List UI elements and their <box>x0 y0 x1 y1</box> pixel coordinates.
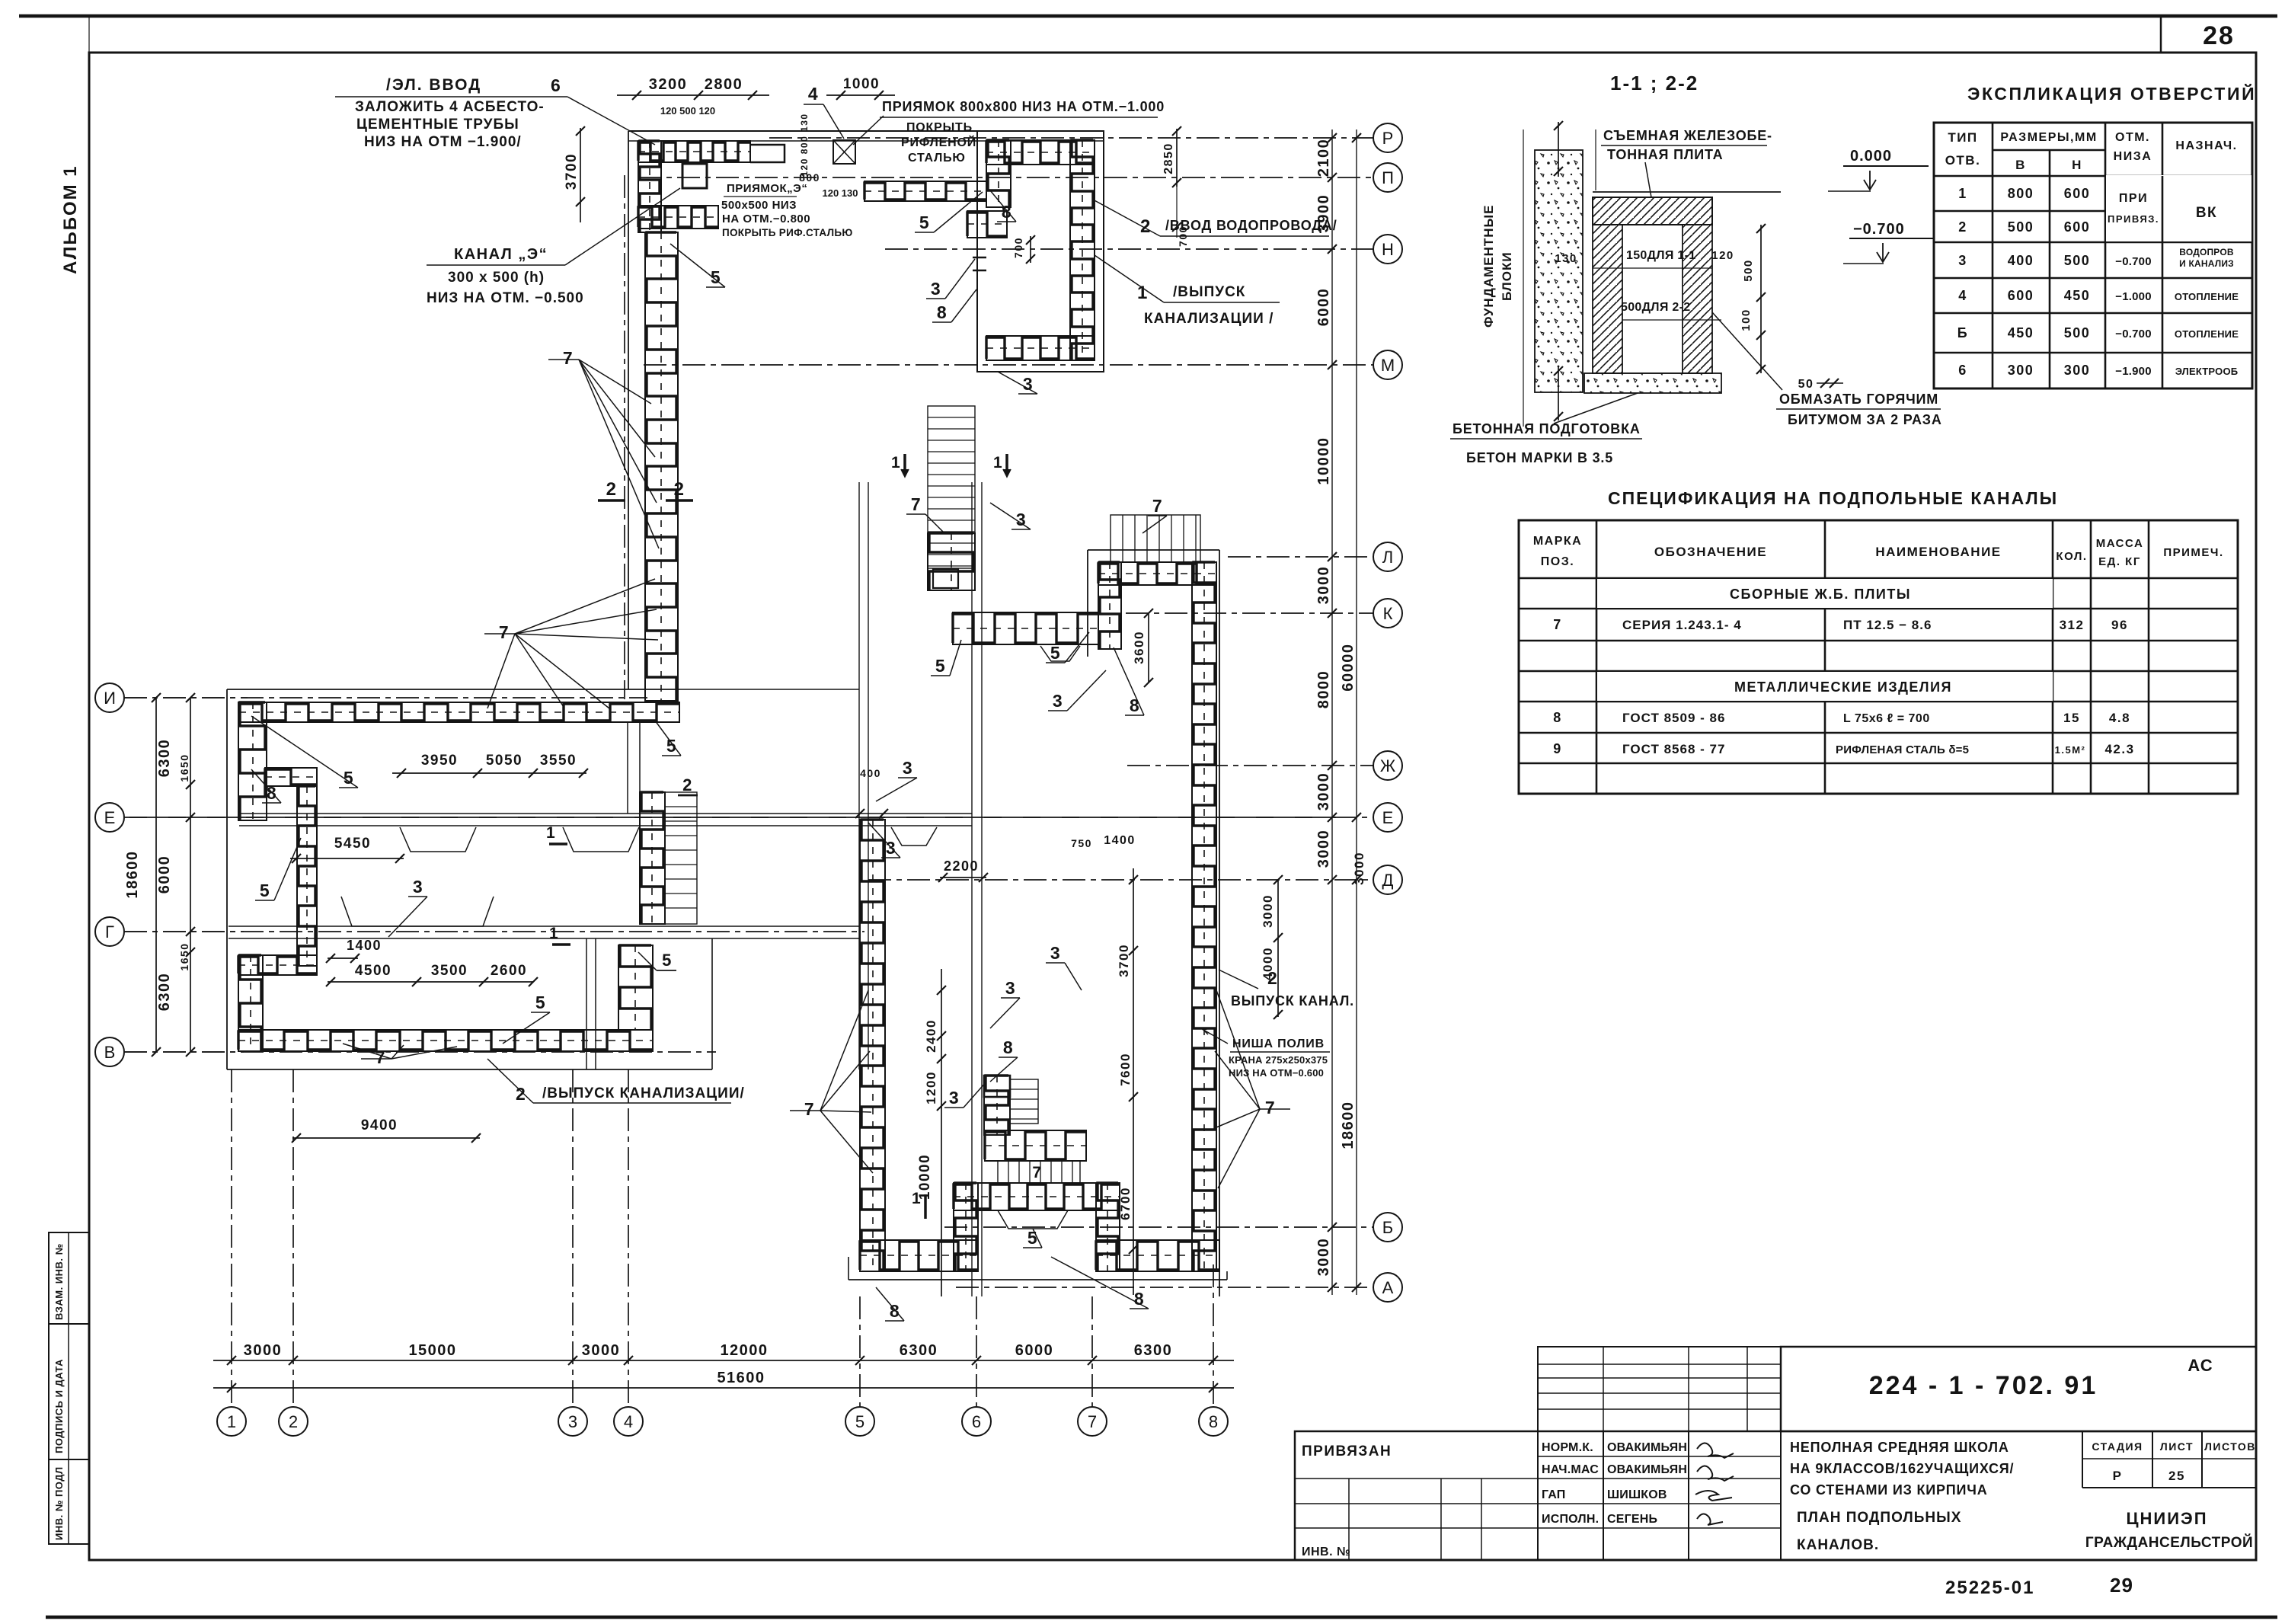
svg-text:51600: 51600 <box>717 1370 765 1386</box>
svg-text:МЕТАЛЛИЧЕСКИЕ ИЗДЕЛИЯ: МЕТАЛЛИЧЕСКИЕ ИЗДЕЛИЯ <box>1734 679 1952 695</box>
svg-text:Ж: Ж <box>1380 756 1396 775</box>
svg-text:Е: Е <box>1382 808 1394 827</box>
svg-text:7: 7 <box>499 622 510 642</box>
svg-text:2200: 2200 <box>944 858 979 874</box>
svg-text:ОВАКИМЬЯН: ОВАКИМЬЯН <box>1607 1463 1687 1476</box>
svg-text:К: К <box>1383 604 1393 623</box>
svg-text:15000: 15000 <box>408 1342 456 1359</box>
svg-text:400: 400 <box>860 767 881 779</box>
svg-text:ПОЗ.: ПОЗ. <box>1541 555 1574 568</box>
svg-text:8: 8 <box>937 302 948 322</box>
svg-text:МАРКА: МАРКА <box>1533 535 1582 548</box>
svg-text:ТИП: ТИП <box>1948 130 1977 145</box>
svg-text:7: 7 <box>804 1099 815 1119</box>
svg-text:3000: 3000 <box>1261 894 1275 928</box>
svg-text:ПРИМЕЧ.: ПРИМЕЧ. <box>2163 546 2223 559</box>
svg-text:25225-01: 25225-01 <box>1945 1578 2034 1598</box>
svg-text:НИША ПОЛИВ: НИША ПОЛИВ <box>1232 1037 1325 1050</box>
svg-text:0.000: 0.000 <box>1850 148 1892 165</box>
svg-text:500: 500 <box>1742 259 1755 282</box>
svg-text:НА ОТМ.−0.800: НА ОТМ.−0.800 <box>722 213 810 225</box>
svg-text:5: 5 <box>662 951 673 970</box>
svg-text:АЛЬБОМ 1: АЛЬБОМ 1 <box>60 165 81 274</box>
svg-text:5: 5 <box>1050 643 1061 663</box>
svg-text:1-1 ; 2-2: 1-1 ; 2-2 <box>1610 72 1699 94</box>
svg-text:2: 2 <box>606 479 618 500</box>
svg-text:/ВЫПУСК: /ВЫПУСК <box>1173 284 1245 300</box>
svg-text:МАССА: МАССА <box>2096 537 2144 550</box>
svg-text:7: 7 <box>1553 617 1562 632</box>
svg-text:Р: Р <box>2113 1469 2123 1483</box>
svg-text:1200: 1200 <box>924 1071 938 1105</box>
svg-text:НАЗНАЧ.: НАЗНАЧ. <box>2175 139 2237 152</box>
svg-text:4.8: 4.8 <box>2109 711 2130 725</box>
svg-text:12000: 12000 <box>720 1342 768 1359</box>
svg-text:НИЗ НА ОТМ. −0.500: НИЗ НА ОТМ. −0.500 <box>427 290 584 306</box>
svg-text:НЕПОЛНАЯ СРЕДНЯЯ ШКОЛА: НЕПОЛНАЯ СРЕДНЯЯ ШКОЛА <box>1790 1440 2009 1455</box>
svg-text:НИЗ НА ОТМ−0.600: НИЗ НА ОТМ−0.600 <box>1229 1067 1324 1079</box>
svg-text:БЕТОННАЯ ПОДГОТОВКА: БЕТОННАЯ ПОДГОТОВКА <box>1452 421 1641 436</box>
svg-text:−0.700: −0.700 <box>2115 255 2152 268</box>
svg-text:224 - 1 - 702. 91: 224 - 1 - 702. 91 <box>1869 1371 2098 1400</box>
svg-text:50: 50 <box>1798 378 1814 391</box>
svg-text:В: В <box>2015 158 2026 172</box>
svg-text:5: 5 <box>935 656 946 676</box>
svg-text:П: П <box>1382 168 1394 187</box>
svg-text:500: 500 <box>2064 253 2091 268</box>
svg-text:КАНАЛОВ.: КАНАЛОВ. <box>1797 1537 1879 1553</box>
svg-text:РИФЛЕНАЯ СТАЛЬ δ=5: РИФЛЕНАЯ СТАЛЬ δ=5 <box>1836 743 1969 756</box>
svg-text:3: 3 <box>931 279 941 299</box>
svg-text:500: 500 <box>2064 325 2091 340</box>
svg-text:150ДЛЯ 1-1: 150ДЛЯ 1-1 <box>1626 249 1695 262</box>
svg-text:НАЧ.МАС: НАЧ.МАС <box>1542 1463 1599 1476</box>
svg-text:1: 1 <box>912 1190 922 1207</box>
svg-text:2100: 2100 <box>1315 139 1332 177</box>
svg-text:1: 1 <box>227 1412 236 1431</box>
svg-text:29: 29 <box>2110 1574 2133 1597</box>
svg-text:ПОКРЫТЬ: ПОКРЫТЬ <box>906 121 973 134</box>
svg-text:1: 1 <box>1958 186 1967 201</box>
svg-text:ПРИЯМОК 800x800 НИЗ НА ОТМ.−1.: ПРИЯМОК 800x800 НИЗ НА ОТМ.−1.000 <box>882 99 1165 114</box>
svg-text:500: 500 <box>2008 219 2034 235</box>
svg-text:600: 600 <box>2064 219 2091 235</box>
svg-text:5050: 5050 <box>486 753 523 769</box>
svg-text:3000: 3000 <box>582 1342 621 1359</box>
svg-text:КОЛ.: КОЛ. <box>2056 550 2087 563</box>
svg-text:5: 5 <box>855 1412 864 1431</box>
svg-text:96: 96 <box>2111 618 2128 632</box>
svg-text:3950: 3950 <box>421 753 458 769</box>
svg-text:2: 2 <box>674 479 685 500</box>
svg-text:3000: 3000 <box>244 1342 283 1359</box>
svg-text:ИНВ. №: ИНВ. № <box>1302 1546 1350 1558</box>
svg-text:7: 7 <box>563 348 574 368</box>
svg-text:5: 5 <box>919 213 930 232</box>
svg-text:6: 6 <box>551 75 561 95</box>
svg-text:4: 4 <box>624 1412 633 1431</box>
svg-text:7: 7 <box>1265 1098 1276 1117</box>
svg-text:ПРИВЯЗАН: ПРИВЯЗАН <box>1302 1443 1392 1459</box>
svg-text:НА 9КЛАССОВ/162УЧАЩИХСЯ/: НА 9КЛАССОВ/162УЧАЩИХСЯ/ <box>1790 1461 2014 1476</box>
svg-text:500ДЛЯ 2-2: 500ДЛЯ 2-2 <box>1621 301 1690 314</box>
svg-text:1: 1 <box>546 824 556 842</box>
svg-text:Н: Н <box>1382 240 1394 259</box>
svg-text:4: 4 <box>808 84 819 104</box>
svg-text:60000: 60000 <box>1340 643 1357 691</box>
svg-text:7600: 7600 <box>1118 1053 1133 1086</box>
svg-text:8: 8 <box>1002 202 1012 222</box>
svg-text:ИСПОЛН.: ИСПОЛН. <box>1542 1513 1599 1526</box>
svg-text:3: 3 <box>413 877 423 897</box>
svg-text:НАИМЕНОВАНИЕ: НАИМЕНОВАНИЕ <box>1875 545 2001 559</box>
svg-text:БЕТОН МАРКИ В 3.5: БЕТОН МАРКИ В 3.5 <box>1466 450 1613 465</box>
svg-text:9400: 9400 <box>361 1117 398 1133</box>
svg-text:СЕГЕНЬ: СЕГЕНЬ <box>1607 1513 1657 1526</box>
svg-text:ВОДОПРОВ: ВОДОПРОВ <box>2179 247 2234 257</box>
svg-text:ОВАКИМЬЯН: ОВАКИМЬЯН <box>1607 1441 1687 1454</box>
svg-text:5450: 5450 <box>334 836 371 852</box>
svg-text:ВЫПУСК КАНАЛ.: ВЫПУСК КАНАЛ. <box>1231 993 1354 1009</box>
svg-text:ЕД. КГ: ЕД. КГ <box>2098 555 2141 568</box>
svg-text:РАЗМЕРЫ,ММ: РАЗМЕРЫ,ММ <box>2000 131 2097 144</box>
svg-text:800: 800 <box>2008 186 2034 201</box>
svg-text:В: В <box>104 1043 116 1062</box>
svg-text:−0.700: −0.700 <box>1853 221 1905 238</box>
svg-text:СЕРИЯ 1.243.1- 4: СЕРИЯ 1.243.1- 4 <box>1622 618 1742 632</box>
svg-text:5: 5 <box>535 993 546 1012</box>
svg-text:ЛИСТ: ЛИСТ <box>2160 1440 2194 1453</box>
svg-text:750: 750 <box>1071 837 1092 849</box>
svg-text:15: 15 <box>2063 711 2080 725</box>
svg-text:2850: 2850 <box>1162 142 1175 174</box>
svg-text:Р: Р <box>1382 129 1394 148</box>
svg-text:3: 3 <box>1005 978 1016 998</box>
svg-text:СПЕЦИФИКАЦИЯ НА ПОДПОЛЬНЫЕ: СПЕЦИФИКАЦИЯ НА ПОДПОЛЬНЫЕ КАНАЛЫ <box>1608 488 2058 508</box>
svg-text:3: 3 <box>1958 253 1967 268</box>
svg-text:ПРИЯМОК„Э“: ПРИЯМОК„Э“ <box>727 182 807 195</box>
svg-text:300 x 500 (h): 300 x 500 (h) <box>448 270 545 286</box>
svg-text:НИЗА: НИЗА <box>2114 150 2152 163</box>
svg-text:8000: 8000 <box>1315 670 1332 709</box>
svg-text:400: 400 <box>2008 253 2034 268</box>
svg-text:ИНВ. № ПОДЛ: ИНВ. № ПОДЛ <box>53 1466 65 1540</box>
svg-text:100: 100 <box>1740 308 1753 331</box>
svg-text:6: 6 <box>972 1412 981 1431</box>
svg-text:3700: 3700 <box>1117 944 1131 977</box>
svg-text:ЭЛЕКТРООБ: ЭЛЕКТРООБ <box>2175 366 2239 377</box>
svg-text:10000: 10000 <box>1315 436 1332 484</box>
svg-text:БЛОКИ: БЛОКИ <box>1500 251 1514 301</box>
svg-text:3: 3 <box>568 1412 577 1431</box>
svg-text:СЪЕМНАЯ ЖЕЛЕЗОБЕ-: СЪЕМНАЯ ЖЕЛЕЗОБЕ- <box>1603 128 1772 143</box>
svg-text:Е: Е <box>104 808 116 827</box>
svg-text:2400: 2400 <box>924 1019 938 1053</box>
svg-text:ОТОПЛЕНИЕ: ОТОПЛЕНИЕ <box>2175 328 2239 340</box>
svg-text:ПТ 12.5 − 8.6: ПТ 12.5 − 8.6 <box>1843 618 1932 632</box>
svg-text:18600: 18600 <box>124 850 141 898</box>
svg-text:ОТОПЛЕНИЕ: ОТОПЛЕНИЕ <box>2175 291 2239 302</box>
svg-text:6000: 6000 <box>1315 288 1332 327</box>
svg-text:1400: 1400 <box>1104 834 1136 847</box>
svg-text:3200: 3200 <box>649 76 688 93</box>
svg-text:СБОРНЫЕ Ж.Б. ПЛИТЫ: СБОРНЫЕ Ж.Б. ПЛИТЫ <box>1730 587 1911 602</box>
svg-text:450: 450 <box>2008 325 2034 340</box>
svg-text:1: 1 <box>549 925 559 942</box>
svg-text:300: 300 <box>2064 363 2091 378</box>
svg-text:3000: 3000 <box>1315 772 1332 811</box>
svg-text:БИТУМОМ ЗА 2 РАЗА: БИТУМОМ ЗА 2 РАЗА <box>1788 412 1942 427</box>
svg-text:6300: 6300 <box>1134 1342 1173 1359</box>
svg-text:ПРИ: ПРИ <box>2119 192 2148 205</box>
svg-text:/ЭЛ. ВВОД: /ЭЛ. ВВОД <box>386 76 481 94</box>
svg-text:ЦЕМЕНТНЫЕ ТРУБЫ: ЦЕМЕНТНЫЕ ТРУБЫ <box>356 117 519 133</box>
svg-text:КАНАЛ „Э“: КАНАЛ „Э“ <box>454 246 548 263</box>
svg-text:8: 8 <box>1130 695 1140 715</box>
svg-text:ЛИСТОВ: ЛИСТОВ <box>2204 1440 2256 1453</box>
svg-text:ЦНИИЭП: ЦНИИЭП <box>2126 1509 2207 1528</box>
svg-text:500x500 НИЗ: 500x500 НИЗ <box>721 199 797 212</box>
svg-text:Л: Л <box>1382 548 1393 567</box>
svg-text:2: 2 <box>1267 968 1278 988</box>
svg-text:ГРАЖДАНСЕЛЬСТРОЙ: ГРАЖДАНСЕЛЬСТРОЙ <box>2085 1534 2253 1551</box>
svg-text:ОТМ.: ОТМ. <box>2115 131 2150 144</box>
svg-text:ПЛАН ПОДПОЛЬНЫХ: ПЛАН ПОДПОЛЬНЫХ <box>1797 1510 1961 1526</box>
svg-text:8: 8 <box>1209 1412 1218 1431</box>
svg-text:КАНАЛИЗАЦИИ /: КАНАЛИЗАЦИИ / <box>1144 311 1274 327</box>
svg-text:ГОСТ 8568 - 77: ГОСТ 8568 - 77 <box>1622 742 1725 756</box>
svg-text:8: 8 <box>890 1301 900 1321</box>
svg-text:2800: 2800 <box>705 76 743 93</box>
svg-text:3: 3 <box>949 1088 960 1108</box>
svg-text:−0.700: −0.700 <box>2115 328 2152 340</box>
svg-text:300: 300 <box>2008 363 2034 378</box>
svg-text:700: 700 <box>1012 237 1024 258</box>
svg-text:И: И <box>104 689 116 708</box>
svg-text:L 75x6 ℓ = 700: L 75x6 ℓ = 700 <box>1843 712 1930 725</box>
svg-text:450: 450 <box>2064 288 2091 303</box>
svg-text:НИЗ НА ОТМ −1.900/: НИЗ НА ОТМ −1.900/ <box>364 134 522 150</box>
svg-text:42.3: 42.3 <box>2104 742 2134 756</box>
svg-text:120: 120 <box>1711 249 1734 262</box>
svg-text:ОБОЗНАЧЕНИЕ: ОБОЗНАЧЕНИЕ <box>1654 545 1767 559</box>
svg-text:600: 600 <box>2064 186 2091 201</box>
svg-text:7: 7 <box>1032 1164 1042 1181</box>
svg-text:/ВЫПУСК КАНАЛИЗАЦИИ/: /ВЫПУСК КАНАЛИЗАЦИИ/ <box>542 1085 745 1101</box>
svg-text:3600: 3600 <box>1132 631 1146 664</box>
svg-text:Г: Г <box>105 922 114 941</box>
svg-text:ОБМАЗАТЬ ГОРЯЧИМ: ОБМАЗАТЬ ГОРЯЧИМ <box>1779 392 1938 407</box>
svg-text:4500: 4500 <box>355 963 391 979</box>
svg-text:1650: 1650 <box>178 753 190 782</box>
svg-text:ЗАЛОЖИТЬ 4 АСБЕСТО-: ЗАЛОЖИТЬ 4 АСБЕСТО- <box>355 99 545 115</box>
svg-text:6000: 6000 <box>156 855 173 894</box>
svg-text:6300: 6300 <box>156 739 173 778</box>
svg-text:ПРИВЯЗ.: ПРИВЯЗ. <box>2108 213 2159 225</box>
svg-text:1: 1 <box>993 454 1003 472</box>
svg-text:2: 2 <box>289 1412 298 1431</box>
svg-text:М: М <box>1381 356 1395 375</box>
svg-text:Б: Б <box>1382 1218 1393 1237</box>
svg-text:7: 7 <box>911 494 922 514</box>
svg-text:3500: 3500 <box>431 963 468 979</box>
svg-text:25: 25 <box>2168 1469 2185 1483</box>
svg-text:7: 7 <box>1152 496 1163 516</box>
svg-text:ВК: ВК <box>2196 205 2217 221</box>
svg-text:1: 1 <box>891 454 901 472</box>
svg-text:3000: 3000 <box>1315 830 1332 868</box>
svg-text:ТОННАЯ ПЛИТА: ТОННАЯ ПЛИТА <box>1607 147 1723 162</box>
svg-text:3000: 3000 <box>1315 566 1332 605</box>
svg-text:Б: Б <box>1957 325 1968 340</box>
svg-text:120 500 120: 120 500 120 <box>660 105 715 117</box>
svg-text:18600: 18600 <box>1340 1101 1357 1149</box>
svg-text:ОТВ.: ОТВ. <box>1945 153 1981 168</box>
svg-text:6: 6 <box>1958 363 1967 378</box>
svg-text:3000: 3000 <box>1352 852 1366 885</box>
svg-text:4: 4 <box>1958 288 1967 303</box>
svg-text:9: 9 <box>1553 741 1562 756</box>
svg-text:2: 2 <box>682 775 693 794</box>
svg-text:Н: Н <box>2072 158 2082 172</box>
svg-text:1.5М²: 1.5М² <box>2055 744 2086 756</box>
svg-text:АС: АС <box>2188 1356 2213 1375</box>
svg-text:120 800 130: 120 800 130 <box>799 113 810 176</box>
svg-text:И КАНАЛИЗ: И КАНАЛИЗ <box>2179 258 2234 269</box>
svg-text:6000: 6000 <box>1015 1342 1054 1359</box>
svg-text:1400: 1400 <box>347 938 382 953</box>
svg-text:8: 8 <box>1553 710 1562 725</box>
svg-text:600: 600 <box>2008 288 2034 303</box>
svg-text:7: 7 <box>1088 1412 1097 1431</box>
svg-text:2600: 2600 <box>491 963 527 979</box>
svg-text:ПОДПИСЬ И ДАТА: ПОДПИСЬ И ДАТА <box>53 1359 65 1453</box>
svg-text:8: 8 <box>1003 1037 1014 1057</box>
svg-text:А: А <box>1382 1278 1394 1297</box>
svg-text:ГАП: ГАП <box>1542 1488 1566 1501</box>
svg-text:−1.000: −1.000 <box>2115 290 2152 303</box>
svg-text:6300: 6300 <box>156 973 173 1012</box>
svg-text:3: 3 <box>1050 943 1061 963</box>
svg-text:120 130: 120 130 <box>823 187 858 199</box>
svg-text:ЭКСПЛИКАЦИЯ ОТВЕРСТИЙ: ЭКСПЛИКАЦИЯ ОТВЕРСТИЙ <box>1967 83 2256 104</box>
svg-text:1650: 1650 <box>178 942 190 970</box>
svg-text:5: 5 <box>260 881 270 900</box>
svg-text:Д: Д <box>1382 871 1394 890</box>
svg-text:7: 7 <box>376 1047 386 1067</box>
svg-text:3: 3 <box>903 758 913 778</box>
svg-text:НОРМ.К.: НОРМ.К. <box>1542 1441 1593 1454</box>
svg-text:РИФЛЕНОЙ: РИФЛЕНОЙ <box>901 135 976 149</box>
svg-text:ПОКРЫТЬ РИФ.СТАЛЬЮ: ПОКРЫТЬ РИФ.СТАЛЬЮ <box>722 227 853 238</box>
svg-text:СТАДИЯ: СТАДИЯ <box>2092 1440 2143 1453</box>
svg-text:СО СТЕНАМИ ИЗ КИРПИЧА: СО СТЕНАМИ ИЗ КИРПИЧА <box>1790 1482 1988 1498</box>
svg-text:ШИШКОВ: ШИШКОВ <box>1607 1488 1667 1501</box>
svg-text:3700: 3700 <box>564 153 580 190</box>
svg-text:/ВВОД ВОДОПРОВОДА/: /ВВОД ВОДОПРОВОДА/ <box>1165 218 1337 233</box>
svg-text:28: 28 <box>2203 21 2235 50</box>
svg-text:6700: 6700 <box>1118 1187 1133 1220</box>
svg-text:312: 312 <box>2060 618 2085 632</box>
svg-text:−1.900: −1.900 <box>2115 365 2152 378</box>
svg-text:ВЗАМ. ИНВ. №: ВЗАМ. ИНВ. № <box>53 1243 65 1320</box>
svg-text:2: 2 <box>1958 219 1967 235</box>
svg-text:3550: 3550 <box>540 753 577 769</box>
svg-text:ФУНДАМЕНТНЫЕ: ФУНДАМЕНТНЫЕ <box>1481 204 1496 328</box>
svg-text:1000: 1000 <box>843 76 880 92</box>
svg-text:130: 130 <box>1555 252 1577 265</box>
svg-text:6300: 6300 <box>900 1342 938 1359</box>
svg-text:3: 3 <box>1053 691 1063 711</box>
svg-text:ГОСТ 8509 - 86: ГОСТ 8509 - 86 <box>1622 711 1725 725</box>
svg-text:3000: 3000 <box>1315 1238 1332 1277</box>
svg-text:СТАЛЬЮ: СТАЛЬЮ <box>908 152 966 165</box>
